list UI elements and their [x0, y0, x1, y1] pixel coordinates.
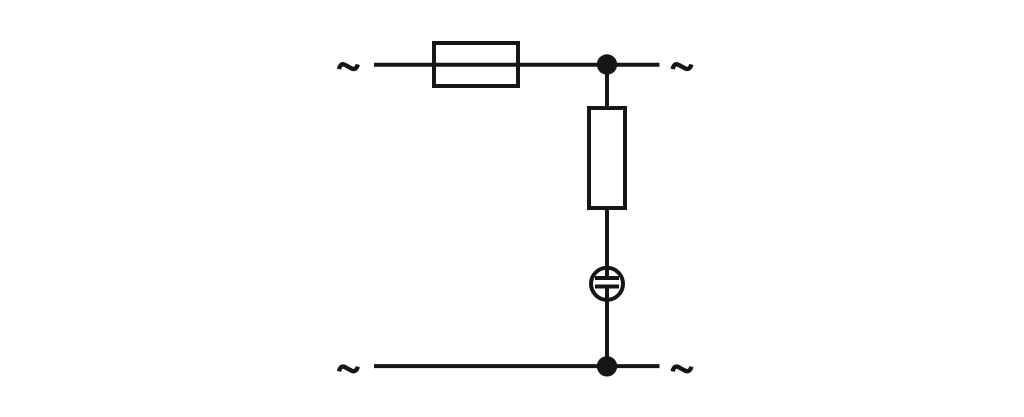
fuse F1	[434, 43, 518, 86]
gas discharge tube electrode (bottom bar)	[595, 285, 619, 289]
wire top rail (L)	[374, 63, 660, 67]
wire: resistor to gas discharge tube	[605, 208, 609, 278]
terminal ~ bottom left (AC input N)	[339, 367, 358, 372]
terminal ~ top right (AC output L)	[673, 64, 692, 69]
wire bottom rail (N)	[374, 364, 660, 368]
junction node A (top rail to branch)	[597, 54, 617, 74]
terminal ~ top left (AC input L)	[339, 64, 358, 69]
resistor R1 (series impedance)	[589, 108, 625, 208]
gas discharge tube GDT (surge arrester) body	[591, 268, 623, 300]
junction node B (bottom rail to branch)	[597, 356, 617, 376]
terminal ~ bottom right (AC output N)	[673, 367, 692, 372]
wire: gas discharge tube to bottom node	[605, 287, 609, 367]
wire: node A down to resistor	[605, 65, 609, 109]
gas discharge tube electrode (top bar)	[595, 276, 619, 280]
